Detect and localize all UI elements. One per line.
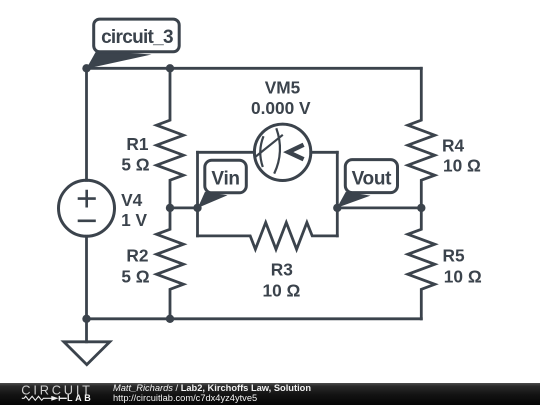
wire Vin vertical xyxy=(196,152,199,236)
footer bar xyxy=(0,383,540,405)
ground xyxy=(64,319,110,365)
resistor R2 xyxy=(157,208,184,319)
node right middle junction xyxy=(417,204,425,212)
node R1/R2 junction xyxy=(166,204,174,212)
node Vin junction xyxy=(193,204,201,212)
wire left branch top (node to V4) xyxy=(85,68,88,180)
node top-left junction xyxy=(82,64,90,72)
resistor R1 xyxy=(157,68,184,208)
resistor R3 xyxy=(198,223,338,250)
resistor R4 xyxy=(408,68,435,208)
wire bottom rail xyxy=(87,317,422,320)
node R2 bottom junction xyxy=(166,315,174,323)
node R1 top junction xyxy=(166,64,174,72)
wire Vout vertical xyxy=(336,152,339,236)
wire middle right (Vout node to right rail) xyxy=(337,206,421,209)
node bottom-left junction xyxy=(82,315,90,323)
voltage source V4 xyxy=(59,180,115,236)
node Vout junction xyxy=(333,204,341,212)
net label circuit_3 xyxy=(86,19,179,69)
net label Vin xyxy=(198,160,247,208)
wire top rail xyxy=(87,67,422,70)
footer title xyxy=(113,384,311,403)
wire middle left (R1/R2 junction to Vin node) xyxy=(170,206,198,209)
wire left branch bottom (V4 to bottom rail) xyxy=(85,236,88,318)
net label Vout xyxy=(337,160,398,208)
voltmeter VM5 xyxy=(198,124,338,180)
svg-text:LAB: LAB xyxy=(67,393,93,403)
resistor R5 xyxy=(408,208,435,319)
